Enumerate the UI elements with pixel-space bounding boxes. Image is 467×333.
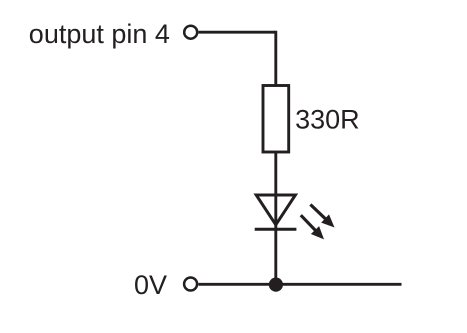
terminal: 0V (open circle) — [184, 278, 197, 291]
svg-text:output pin 4: output pin 4 — [29, 19, 170, 49]
wire: 0V rail — [198, 283, 401, 286]
junction: LED cathode to 0V rail (solder dot) — [269, 278, 283, 292]
LED light arrow 1 head — [321, 214, 334, 227]
LED D1 anode triangle — [256, 195, 295, 225]
terminal: output pin 4 (open circle) — [184, 26, 197, 39]
svg-text:330R: 330R — [295, 105, 360, 135]
wire: output pin 4 terminal to resistor top — [198, 31, 275, 34]
LED light arrow 2 head — [311, 226, 324, 239]
LED light arrow 2 shaft — [301, 215, 316, 231]
wire: vertical net from corner down through LED to 0V junction — [274, 31, 277, 284]
LED D1 cathode bar — [255, 228, 297, 231]
LED light arrow 1 shaft — [310, 205, 325, 220]
svg-text:0V: 0V — [134, 270, 167, 300]
resistor R1 body — [263, 86, 289, 153]
